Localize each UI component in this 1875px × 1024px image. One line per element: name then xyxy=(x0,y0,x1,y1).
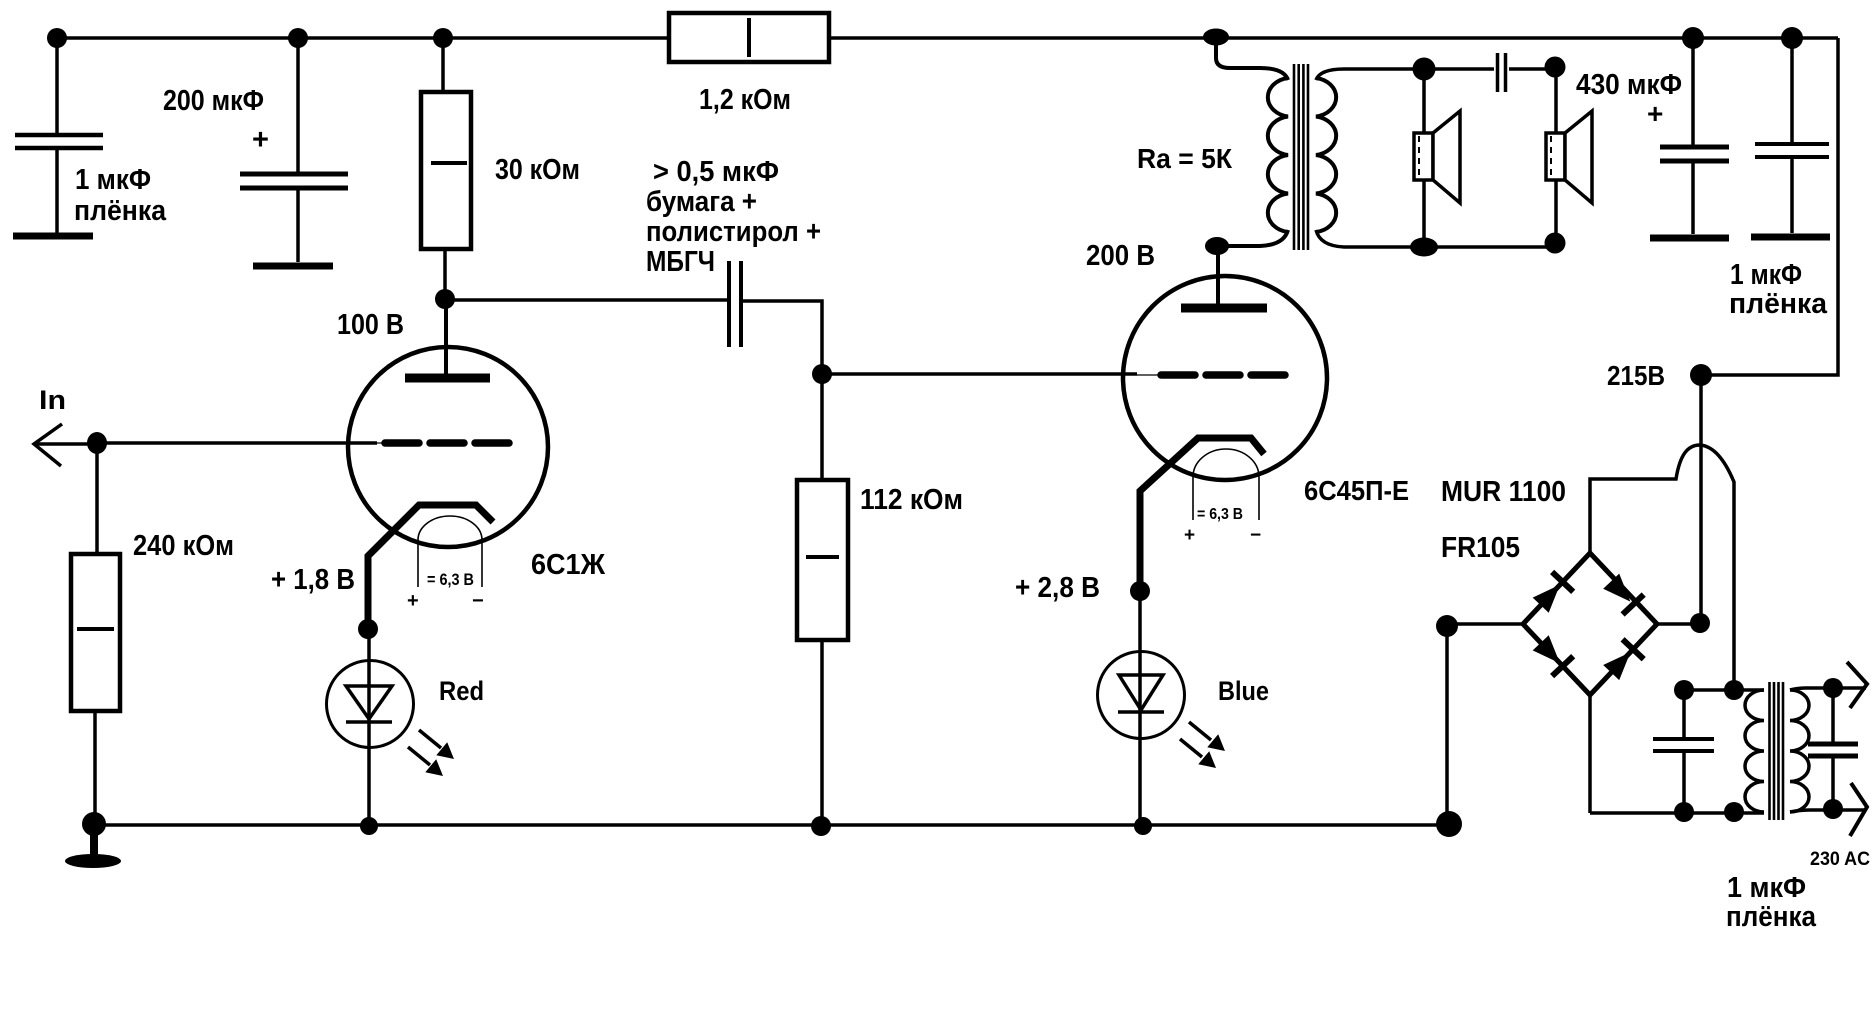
transformer T1 primary winding xyxy=(1268,78,1288,232)
node top rail C2 xyxy=(288,28,308,48)
V2 anode xyxy=(1181,248,1267,308)
wire T2 secondary bottom xyxy=(1790,810,1866,812)
wire bridge minus to bottom rail xyxy=(1447,624,1523,824)
resistor R3 240 kOm xyxy=(71,554,120,824)
capacitor C6 1uF film (right) xyxy=(1751,38,1830,237)
V2 heater labels xyxy=(1184,506,1261,546)
resistor R4 112 kOm xyxy=(797,374,848,825)
svg-text:= 6,3 В: = 6,3 В xyxy=(427,570,474,589)
wire bottom rail xyxy=(94,823,1449,827)
wire bridge AC top with hop xyxy=(1590,445,1734,690)
node anode V2 200V xyxy=(1205,237,1229,255)
node bridge plus xyxy=(1690,613,1710,633)
mains arrow top xyxy=(1847,662,1867,708)
svg-text:FR105: FR105 xyxy=(1441,532,1520,564)
capacitor C3 coupling > 0,5 мкФ xyxy=(729,261,822,374)
svg-text:плёнка: плёнка xyxy=(1729,288,1828,320)
mains arrow bottom xyxy=(1850,783,1867,836)
node top rail R2 xyxy=(433,28,453,48)
node T2 secondary bottom xyxy=(1823,799,1843,819)
svg-text:МБГЧ: МБГЧ xyxy=(646,246,715,278)
speaker LS2 xyxy=(1546,69,1592,248)
svg-text:1 мкФ: 1 мкФ xyxy=(75,164,151,196)
wire bridge AC bottom to mains transformer xyxy=(1590,695,1764,813)
node rail R4 xyxy=(811,816,831,836)
node input xyxy=(87,432,107,454)
svg-text:MUR 1100: MUR 1100 xyxy=(1441,476,1566,508)
svg-text:430 мкФ: 430 мкФ xyxy=(1576,69,1682,101)
node speaker LS2 top xyxy=(1545,57,1566,78)
capacitor C1 1uF film (left) xyxy=(13,38,103,236)
svg-text:+: + xyxy=(407,590,419,612)
svg-text:1,2 кОм: 1,2 кОм xyxy=(699,84,791,116)
wire mains primary top xyxy=(1684,688,1764,692)
svg-text:215В: 215В xyxy=(1607,360,1665,391)
svg-text:плёнка: плёнка xyxy=(1726,901,1817,933)
node rail right end xyxy=(1436,811,1462,837)
wire top rail right xyxy=(829,36,1838,40)
input arrow In xyxy=(34,424,97,466)
speaker LS1 xyxy=(1414,69,1460,249)
node grid V2 xyxy=(812,364,832,384)
svg-text:+ 2,8 В: + 2,8 В xyxy=(1015,572,1100,604)
node speaker LS1 bottom xyxy=(1410,238,1438,257)
ground xyxy=(65,824,121,868)
node speaker LS1 top xyxy=(1413,58,1436,81)
node T2 primary bottom left xyxy=(1674,802,1694,822)
svg-text:30 кОм: 30 кОм xyxy=(495,154,580,186)
svg-text:Ra = 5К: Ra = 5К xyxy=(1137,143,1233,174)
wire input node down xyxy=(95,443,99,554)
svg-text:+ 1,8 В: + 1,8 В xyxy=(271,564,355,596)
label C3 value xyxy=(646,156,821,278)
svg-text:полистирол +: полистирол + xyxy=(646,216,821,248)
svg-text:6С1Ж: 6С1Ж xyxy=(531,549,606,581)
node T2 primary top left xyxy=(1674,680,1694,700)
transformer T1 primary lead bottom xyxy=(1218,230,1288,246)
node speaker LS2 bottom xyxy=(1545,233,1566,254)
transformer T1 secondary winding xyxy=(1316,78,1336,232)
svg-text:200 В: 200 В xyxy=(1086,240,1155,272)
svg-text:−: − xyxy=(1250,525,1261,546)
triode V2 6С45П-Е envelope xyxy=(1123,276,1327,480)
node ground rail left xyxy=(82,812,106,836)
V1 grid xyxy=(377,442,510,444)
transformer T2 core xyxy=(1770,682,1784,820)
label C1 value 1 мкФ плёнка xyxy=(74,164,167,227)
wire input node to grid V1 xyxy=(97,441,377,445)
transformer T1 output primary lead top xyxy=(1216,38,1288,80)
capacitor C5 430uF xyxy=(1650,38,1729,238)
wire 215V node down to bridge xyxy=(1699,375,1703,623)
svg-text:1 мкФ: 1 мкФ xyxy=(1727,872,1806,904)
svg-text:200 мкФ: 200 мкФ xyxy=(163,85,264,117)
capacitor C7 1uF film (mains) xyxy=(1653,690,1714,812)
label C6 value 1 мкФ плёнка xyxy=(1729,259,1828,320)
wire grid node to V2 grid xyxy=(822,372,1137,376)
transformer T1 secondary lead bottom xyxy=(1316,230,1556,247)
V1 anode xyxy=(405,300,490,378)
svg-text:−: − xyxy=(472,590,484,612)
node T2 primary bottom right xyxy=(1724,802,1744,822)
label C5 value 430 мкФ xyxy=(1576,69,1682,129)
V2 heater xyxy=(1193,449,1259,520)
resistor R2 30 kOm xyxy=(421,38,471,300)
LED D1 Red xyxy=(327,629,455,825)
svg-text:112 кОм: 112 кОм xyxy=(860,484,963,516)
node top rail C1 xyxy=(47,28,67,48)
V1 heater xyxy=(418,516,482,587)
node top rail C6 xyxy=(1781,27,1803,49)
node rail LED D1 xyxy=(360,817,378,835)
diode D4 upper-right xyxy=(1601,571,1644,614)
svg-text:> 0,5 мкФ: > 0,5 мкФ xyxy=(653,156,779,188)
diode D3 upper-left xyxy=(1530,572,1573,615)
svg-text:+: + xyxy=(1184,525,1195,546)
node cathode V1 xyxy=(358,619,378,639)
V2 grid xyxy=(1137,374,1286,376)
triode V1 6С1Ж envelope xyxy=(348,347,548,547)
svg-text:Red: Red xyxy=(439,676,484,706)
diode D6 lower-right xyxy=(1601,639,1644,682)
node bridge minus xyxy=(1436,615,1458,637)
svg-text:+: + xyxy=(252,124,269,156)
label C2 value 200 мкФ xyxy=(163,85,269,156)
node rail LED D2 xyxy=(1134,817,1152,835)
svg-text:бумага +: бумага + xyxy=(646,186,757,218)
node T2 secondary top xyxy=(1823,678,1843,698)
node top rail C5 xyxy=(1682,27,1704,49)
svg-text:плёнка: плёнка xyxy=(74,195,167,227)
bridge rectifier diamond xyxy=(1523,553,1657,695)
node T2 primary top right xyxy=(1724,680,1744,700)
capacitor C2 200uF electrolytic xyxy=(240,38,348,266)
label C7 value 1 мкФ плёнка xyxy=(1726,872,1817,933)
svg-text:Blue: Blue xyxy=(1218,676,1269,706)
V1 cathode and lead xyxy=(368,505,493,629)
wire top rail left xyxy=(53,36,669,40)
node top rail T1 xyxy=(1203,29,1229,46)
V1 heater labels xyxy=(407,570,484,612)
V2 cathode and lead xyxy=(1140,438,1264,591)
transformer T1 secondary lead top xyxy=(1316,69,1494,80)
wire anode V1 to coupling cap xyxy=(445,298,727,302)
wire bridge plus to 215V wire xyxy=(1658,622,1700,626)
wire T2 secondary top xyxy=(1790,688,1866,690)
transformer T1 core xyxy=(1294,64,1308,250)
capacitor C4 crossover xyxy=(1498,53,1557,92)
wire right edge drop to 215V xyxy=(1701,38,1838,375)
svg-text:In: In xyxy=(39,385,66,415)
svg-text:1 мкФ: 1 мкФ xyxy=(1730,259,1802,291)
node cathode V2 xyxy=(1130,581,1150,601)
svg-text:+: + xyxy=(1647,98,1663,129)
svg-text:100 В: 100 В xyxy=(337,309,404,341)
diode D5 lower-left xyxy=(1530,633,1573,676)
svg-text:240 кОм: 240 кОм xyxy=(133,530,234,562)
transformer T2 mains primary winding xyxy=(1745,690,1764,812)
svg-text:6С45П-Е: 6С45П-Е xyxy=(1304,475,1409,506)
svg-text:= 6,3 В: = 6,3 В xyxy=(1197,506,1243,523)
svg-text:230 AC: 230 AC xyxy=(1810,849,1870,870)
resistor R1 1,2 kOm xyxy=(669,13,829,62)
LED D2 Blue xyxy=(1098,591,1226,825)
capacitor C8 mains secondary xyxy=(1808,688,1858,809)
node anode V1 xyxy=(435,289,455,309)
node 215V xyxy=(1690,364,1712,386)
transformer T2 secondary winding xyxy=(1790,690,1809,812)
